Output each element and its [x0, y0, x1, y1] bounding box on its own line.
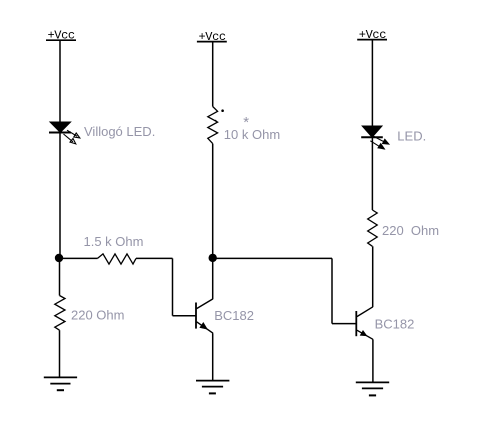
resistor R1 220 Ohm (vertical zigzag) [55, 296, 65, 331]
wire D2 cathode to resistor R4 [371, 137, 373, 210]
power +Vcc (middle) bar [197, 41, 227, 43]
stray dot near R2 top [221, 109, 224, 112]
LED D1 (Villogó LED) triangle [50, 122, 71, 132]
wire to Q2 base [332, 323, 356, 325]
LED D1 cathode bar [49, 132, 71, 134]
wire D1 cathode to node A [59, 133, 61, 257]
power +Vcc (left) bar [46, 39, 76, 41]
wire Q1 emitter to ground [212, 333, 214, 380]
wire R2 to node B [212, 144, 214, 256]
wire node B to Q1 collector [212, 258, 214, 299]
transistor Q2 emitter arrow [360, 331, 367, 336]
transistor Q2 BC182 collector lead [357, 307, 373, 317]
LED D2 cathode bar [361, 136, 383, 138]
wire R4 to Q2 collector [372, 246, 374, 307]
wire R1 to ground [59, 330, 61, 377]
LED D2 triangle [362, 126, 382, 137]
LED D1 light arrow 1 [67, 130, 80, 138]
wire bend down to Q1 base level [172, 258, 174, 315]
stray dot mid R2 [215, 120, 217, 122]
resistor R2 10 k Ohm (vertical zigzag) [208, 107, 218, 144]
transistor Q1 base bar [195, 303, 197, 329]
wire to Q1 base [173, 315, 197, 317]
resistor R3 1.5 k Ohm (horizontal zigzag) [98, 254, 137, 264]
wire R3 to bend [136, 257, 173, 259]
wire Vcc1 to LED D1 anode [59, 40, 61, 122]
svg-text:BC182: BC182 [214, 308, 254, 323]
LED D2 light arrow 1 [374, 136, 389, 144]
svg-text:10 k Ohm: 10 k Ohm [224, 127, 280, 142]
svg-text:BC182: BC182 [375, 316, 415, 331]
svg-text:LED.: LED. [397, 129, 426, 144]
svg-text:220 Ohm: 220 Ohm [382, 223, 439, 238]
transistor Q1 emitter arrow [200, 323, 207, 330]
wire Q2 emitter to ground [372, 339, 374, 382]
wire bend down to Q2 base level [331, 258, 333, 323]
power +Vcc (right) bar [357, 39, 387, 41]
wire node B to bend (right) [213, 257, 332, 259]
node B (junction dot) [209, 254, 217, 262]
ground (left) [44, 377, 77, 390]
wire Vcc2 to resistor R2 [212, 42, 214, 107]
wire Vcc3 to LED D2 anode [371, 40, 373, 127]
LED D1 light arrow 2 [64, 134, 76, 144]
wire node A to resistor R3 [59, 257, 98, 259]
svg-text:220 Ohm: 220 Ohm [71, 308, 124, 323]
svg-text:1.5 k Ohm: 1.5 k Ohm [84, 234, 144, 249]
transistor Q2 base bar [355, 311, 357, 336]
transistor Q1 emitter lead [197, 322, 213, 333]
ground (right) [356, 382, 389, 395]
transistor Q1 BC182 collector lead [197, 299, 213, 309]
transistor Q2 emitter lead [357, 330, 373, 339]
resistor R4 220 Ohm (vertical zigzag) [368, 210, 378, 246]
ground (middle) [196, 381, 229, 394]
node A (junction dot) [55, 254, 63, 262]
wire node A to resistor R1 [59, 258, 61, 296]
svg-text:Villogó LED.: Villogó LED. [84, 124, 155, 139]
LED D2 light arrow 2 [370, 141, 384, 149]
